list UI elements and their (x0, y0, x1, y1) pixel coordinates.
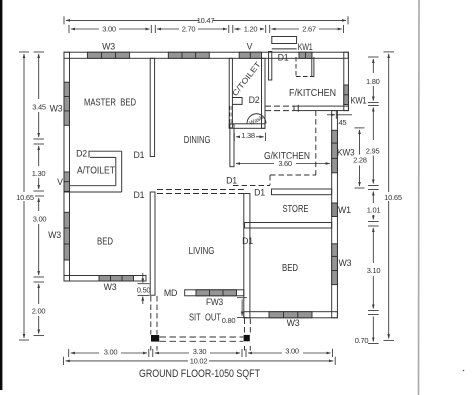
svg-text:3.00: 3.00 (33, 215, 47, 224)
svg-text:F/KITCHEN: F/KITCHEN (289, 88, 336, 99)
svg-text:KW1: KW1 (351, 96, 367, 106)
svg-text:3.00: 3.00 (285, 346, 299, 355)
page edge bar left (0, 0, 2, 390)
window W3 top-a (87, 52, 129, 58)
svg-text:W1: W1 (338, 205, 351, 215)
wall: stub below C/TOILET (230, 124, 234, 167)
svg-text:W3: W3 (339, 258, 352, 268)
dim 0.50 (138, 273, 150, 304)
dim bottom 3.00 right (246, 349, 333, 357)
dashed divider DINING/LIVING (157, 190, 244, 194)
wash stamp (247, 114, 266, 124)
dim right 0.70 (368, 315, 379, 344)
dim top 1.20 (233, 25, 266, 33)
svg-text:3.60: 3.60 (278, 159, 292, 168)
wall: exterior bottom-left (BED front) (64, 276, 146, 282)
svg-text:A/TOILET: A/TOILET (77, 166, 115, 177)
door jamb D2 notch (232, 98, 242, 105)
svg-text:SIT OUT: SIT OUT (189, 312, 221, 323)
label 10.65 right (383, 193, 404, 203)
svg-text:0.50: 0.50 (137, 285, 151, 294)
wall: exterior top (64, 52, 348, 58)
kitchen floor tick (297, 105, 299, 112)
dim right 1.01 (368, 190, 379, 222)
wall: kitchen bottom step (294, 106, 348, 111)
svg-text:.45: .45 (337, 118, 347, 127)
svg-text:1.30: 1.30 (32, 169, 46, 178)
svg-text:C/TOILET: C/TOILET (230, 60, 263, 98)
svg-text:2.00: 2.00 (32, 306, 46, 315)
window KW1 right (344, 85, 349, 105)
svg-text:3.30: 3.30 (193, 347, 207, 356)
svg-text:LIVING: LIVING (189, 246, 215, 257)
wall: C/TOILET left (229, 58, 232, 128)
svg-text:W3: W3 (287, 318, 300, 328)
wall: BED2 bottom (front) (244, 312, 338, 318)
svg-text:V: V (57, 177, 63, 187)
svg-text:W3: W3 (104, 282, 117, 292)
dim bottom 10.02 (64, 357, 336, 365)
window KW1 top (299, 52, 312, 58)
window W3 bottom-right (269, 312, 312, 318)
dashed sit-out bottom edge (160, 337, 244, 341)
wall: front FW3 (living south) (185, 290, 244, 296)
svg-text:BED: BED (97, 236, 113, 247)
svg-text:3.45: 3.45 (32, 103, 46, 112)
window FW3 front (196, 290, 237, 296)
svg-text:KW1: KW1 (298, 42, 313, 52)
svg-text:W3: W3 (102, 42, 115, 52)
wall: STORE bottom (245, 223, 332, 229)
svg-text:10.47: 10.47 (197, 16, 215, 25)
svg-text:DINING: DINING (184, 135, 211, 146)
svg-text:1.38: 1.38 (241, 131, 255, 140)
svg-text:D1: D1 (226, 176, 237, 186)
label 1.38 (240, 131, 256, 140)
dim bottom 3.00 left (69, 349, 149, 357)
svg-text:W3: W3 (50, 104, 63, 114)
window W3 top-b (168, 52, 209, 58)
pillar right (244, 335, 250, 341)
window V top (239, 52, 261, 58)
svg-text:GROUND FLOOR-1050 SQFT: GROUND FLOOR-1050 SQFT (139, 368, 260, 380)
kitchen platform inner line (272, 48, 297, 50)
svg-text:10.65: 10.65 (16, 193, 34, 202)
dim 0.80 (237, 298, 247, 318)
wall: BED2 left (244, 194, 250, 318)
dim left outer 10.65 (19, 52, 29, 340)
dashed door D2 on c/toilet wall (230, 106, 232, 124)
page divider line right (418, 0, 421, 395)
svg-text:MD: MD (164, 288, 177, 298)
svg-text:STORE: STORE (283, 204, 309, 215)
svg-text:1.01: 1.01 (367, 206, 381, 215)
wall: partition MASTER BED / DINING (150, 58, 154, 156)
dim left 2.00 (34, 282, 45, 336)
dim right 3.10 (368, 226, 379, 311)
svg-text:FW3: FW3 (206, 297, 223, 307)
wall: C/TOILET right (262, 58, 266, 128)
window W3 bottom-left (99, 276, 134, 282)
svg-text:MASTER BED: MASTER BED (84, 98, 136, 109)
wall: A/TOILET bottom partition (64, 186, 122, 192)
svg-text:V: V (247, 41, 253, 51)
wall: kitchen right (upper) (344, 52, 349, 110)
svg-text:D1: D1 (278, 53, 289, 63)
label 3.60 (275, 159, 295, 168)
svg-text:10.65: 10.65 (384, 193, 402, 202)
label 10.65 left (15, 193, 35, 203)
dashed sit-out left edge (151, 296, 157, 351)
svg-text:1.80: 1.80 (366, 77, 380, 86)
wall: exterior right lower (332, 111, 338, 318)
window W3 left upper (64, 82, 70, 125)
wall: STORE top (272, 189, 332, 195)
dim bottom 3.30 (153, 349, 242, 357)
dim 2.28 (355, 128, 365, 188)
pillar left (151, 335, 159, 342)
svg-text:3.00: 3.00 (104, 347, 118, 356)
kitchen work platform bump (272, 37, 297, 44)
dim left 3.45 (34, 52, 45, 139)
svg-text:D1: D1 (254, 188, 265, 198)
svg-text:0.70: 0.70 (355, 336, 369, 345)
window W1 right (332, 203, 338, 217)
dim left 3.00 (34, 196, 45, 277)
window W3 left lower (64, 212, 70, 260)
svg-text:BED: BED (282, 263, 298, 274)
dashed sit-out right edge (245, 319, 251, 351)
dim right 2.95 (368, 106, 379, 186)
dim left 1.30 (34, 144, 45, 191)
dashed door swing D1 kitchen (296, 57, 314, 77)
svg-text:D2: D2 (249, 95, 260, 105)
dashed kitchen floor edge (265, 106, 294, 111)
svg-text:0.80: 0.80 (222, 316, 236, 325)
dashed G/KITCHEN counter (233, 111, 316, 186)
svg-text:1.20: 1.20 (244, 25, 258, 34)
dim 3.60 (236, 163, 330, 165)
svg-text:D1: D1 (134, 150, 145, 160)
svg-text:D1: D1 (242, 236, 253, 246)
dim top 10.47 (64, 16, 348, 24)
wall: partition LIVING left (150, 192, 155, 295)
svg-text:D1: D1 (134, 190, 145, 200)
window V left (64, 172, 70, 191)
dim right outer 10.65 (384, 52, 395, 341)
dim 1.38 (234, 133, 265, 141)
svg-text:3.10: 3.10 (367, 266, 381, 275)
dim right inner 1.80 (368, 57, 379, 103)
window W3 right (332, 244, 338, 285)
svg-text:2.70: 2.70 (182, 25, 196, 34)
svg-text:D2: D2 (76, 149, 87, 159)
wall: F/KITCHEN west (269, 52, 272, 81)
svg-text:2.95: 2.95 (366, 146, 380, 155)
svg-text:2.67: 2.67 (302, 25, 316, 34)
dim top 3.00 (69, 25, 151, 33)
svg-text:Wash: Wash (249, 115, 265, 127)
svg-text:W3: W3 (48, 230, 61, 240)
wall: A/TOILET right partition (116, 151, 122, 192)
dim .45 (327, 111, 352, 119)
svg-text:3.00: 3.00 (102, 25, 116, 34)
wall: exterior left (64, 52, 70, 281)
wall: C/TOILET bottom (229, 124, 265, 129)
kitchen door leaf (312, 57, 314, 77)
svg-text:10.02: 10.02 (190, 356, 208, 365)
dim top 2.67 (270, 25, 344, 33)
wall: A/TOILET top partition (89, 151, 122, 157)
label 10.02 (189, 356, 210, 365)
window KW3 right (332, 130, 338, 173)
dim top 2.70 (155, 25, 229, 33)
svg-text:2.28: 2.28 (353, 155, 367, 164)
